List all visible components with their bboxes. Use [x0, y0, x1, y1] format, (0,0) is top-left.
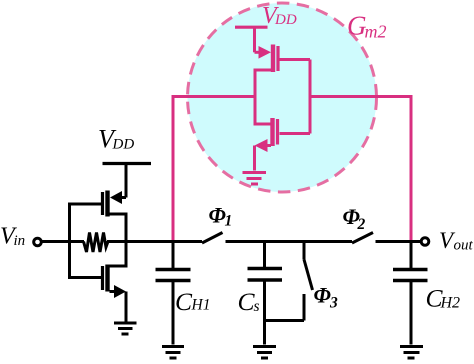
- label phi3: [314, 283, 339, 312]
- capacitor CH1: [156, 242, 191, 345]
- ground (inverter source): [114, 323, 137, 334]
- svg-text:out: out: [454, 238, 474, 254]
- svg-text:H2: H2: [440, 295, 461, 312]
- label VDD (inverter supply): [98, 125, 134, 154]
- transistor M2 (inverter lower device): [68, 242, 126, 322]
- wire phi3 to Cs bottom: [265, 319, 305, 322]
- label Vin: [0, 224, 25, 250]
- label CH2: [426, 284, 461, 313]
- node Vout terminal: [421, 238, 429, 246]
- svg-text:s: s: [254, 298, 260, 315]
- label phi1: [209, 203, 233, 230]
- resistor R1 (feedback): [84, 233, 109, 253]
- wire gate bus (inverter input): [68, 204, 71, 278]
- svg-text:DD: DD: [112, 137, 135, 153]
- power rail VDD of Gm2: [235, 26, 268, 29]
- transistor M3 (Gm2 upper device): [255, 27, 311, 96]
- svg-text:2: 2: [357, 216, 366, 233]
- capacitor Cs: [248, 242, 283, 345]
- label Vout: [439, 228, 474, 254]
- label Cs: [238, 287, 260, 316]
- svg-text:Φ: Φ: [209, 203, 226, 228]
- ground (Gm2 source): [243, 173, 267, 185]
- label phi2: [343, 204, 366, 233]
- transistor M1 (inverter upper device): [68, 164, 126, 242]
- svg-text:1: 1: [225, 213, 233, 230]
- label Gm2: [347, 11, 387, 42]
- label CH1: [175, 287, 210, 316]
- svg-text:H1: H1: [191, 297, 211, 314]
- wire resistor to phi1 contact: [107, 240, 202, 243]
- node Vin terminal: [34, 238, 42, 246]
- svg-text:3: 3: [329, 295, 338, 312]
- wire phi1 to phi2: [265, 240, 353, 243]
- capacitor CH2: [393, 242, 428, 345]
- label VDD (Gm2 supply): [262, 3, 297, 29]
- svg-text:Φ: Φ: [314, 283, 331, 308]
- svg-text:m2: m2: [365, 22, 387, 42]
- svg-text:in: in: [14, 233, 26, 249]
- switch phi3: [304, 242, 313, 321]
- svg-text:C: C: [175, 287, 193, 316]
- wire Vin to resistor: [43, 240, 85, 243]
- transistor M4 (Gm2 lower device): [255, 97, 311, 171]
- ground (Cs): [253, 347, 276, 359]
- ground (CH2): [400, 347, 423, 359]
- switch phi2: [352, 233, 421, 244]
- svg-text:DD: DD: [274, 12, 297, 28]
- ground (CH1): [162, 347, 184, 359]
- wire Gm2 gate bus (right): [309, 60, 312, 134]
- wire Gm2 input (left, down to CH1 node): [173, 97, 255, 242]
- switch phi1: [202, 233, 265, 244]
- power rail VDD of inverter: [103, 162, 152, 165]
- wire Gm2 output (right, down to Vout node): [310, 97, 411, 242]
- Gm2 boundary circle: [188, 3, 377, 192]
